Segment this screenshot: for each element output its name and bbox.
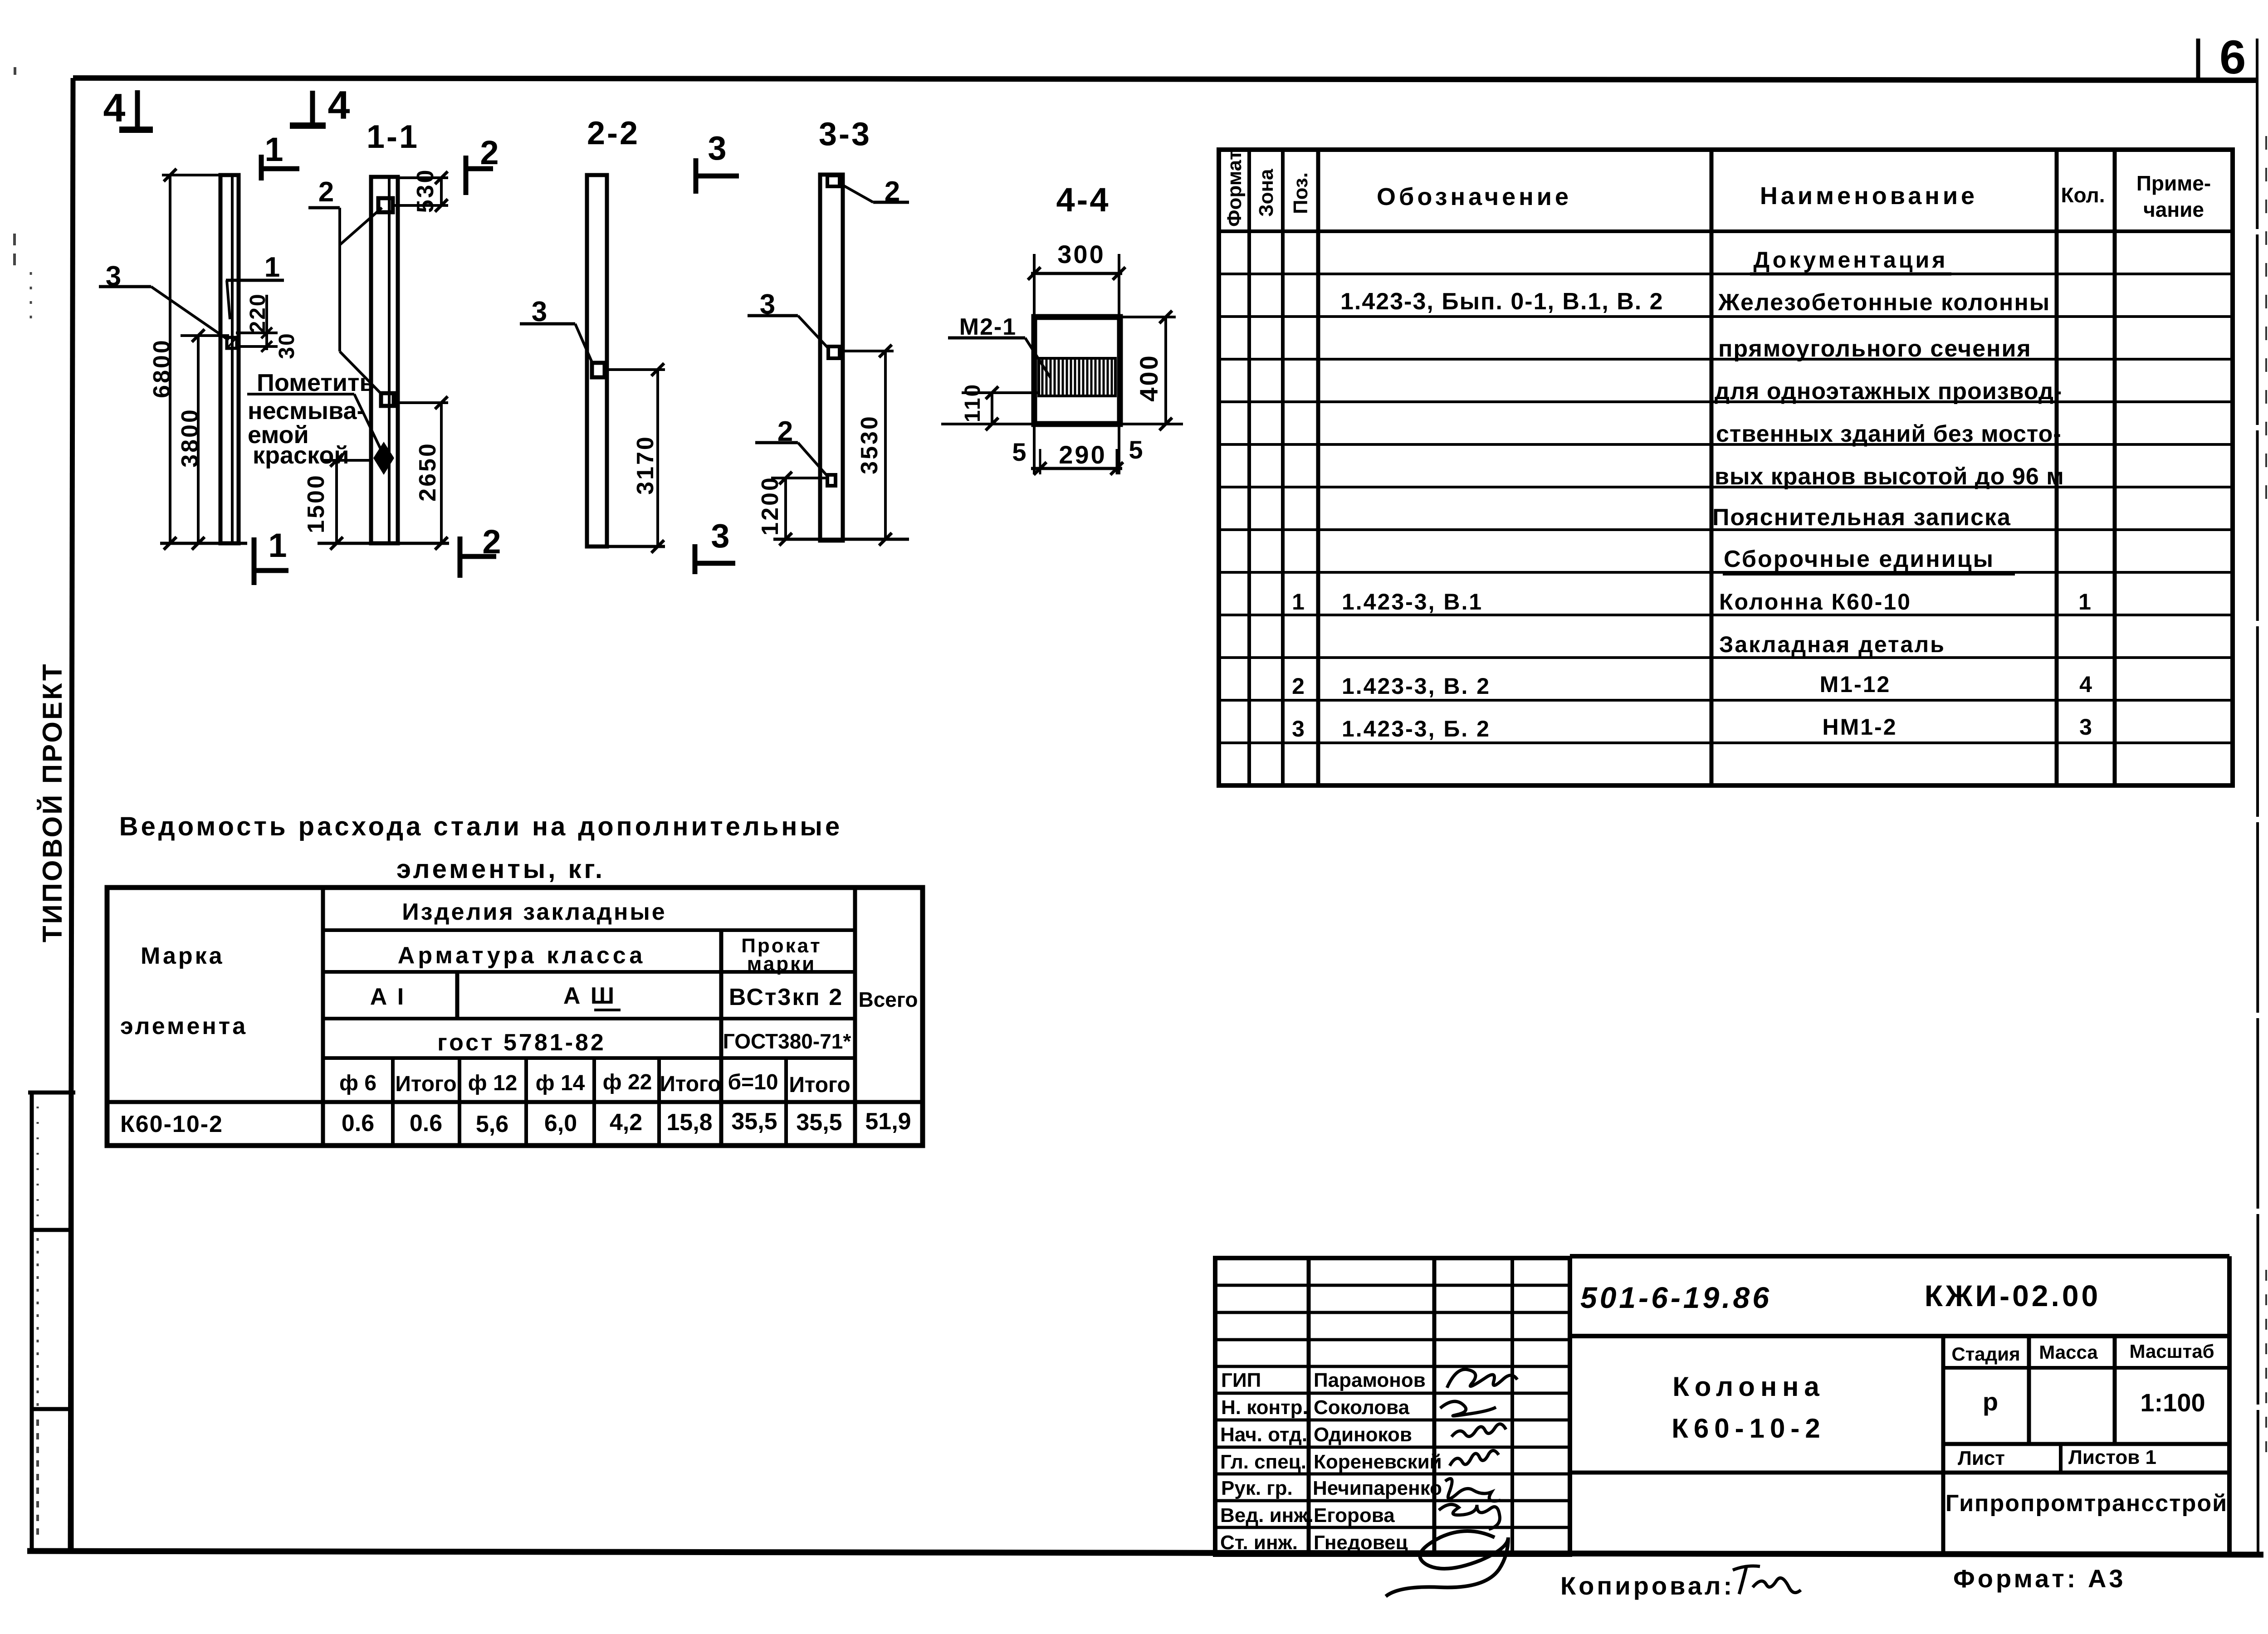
svg-text:К60-10-2: К60-10-2 (120, 1111, 223, 1137)
specification table header: Zona (1255, 169, 1277, 217)
list row (1958, 1446, 2156, 1469)
view 4-4: leader label M2-1 (948, 314, 1051, 378)
svg-text:1: 1 (268, 527, 287, 564)
svg-text:Обозначение: Обозначение (1377, 183, 1572, 210)
svg-text:краской: краской (253, 442, 349, 469)
spec row: M1-12 (1292, 672, 2092, 699)
svg-text:прямоугольного сечения: прямоугольного сечения (1718, 336, 2032, 362)
svg-text:2: 2 (318, 176, 334, 208)
title block text KZHI-02.00 (1925, 1279, 2101, 1312)
title block name: Kolonna K60-10-2 (1672, 1371, 1825, 1444)
svg-text:3530: 3530 (856, 415, 883, 474)
spec row: zakladnaya detal (1719, 632, 1945, 657)
spec row: sborochnye edinitsy heading (1723, 546, 2015, 574)
view 3-3: dimension 1200 (757, 472, 827, 546)
svg-text:ф 14: ф 14 (536, 1071, 585, 1095)
view 4-4: column cross-section box (1034, 317, 1120, 424)
svg-text:Нач. отд.: Нач. отд. (1220, 1424, 1307, 1446)
specification table header: Kol (2061, 183, 2105, 207)
svg-text:Пометить: Пометить (257, 369, 375, 396)
svg-text:элемента: элемента (120, 1013, 248, 1039)
svg-text:Листов 1: Листов 1 (2068, 1446, 2156, 1468)
svg-text:А Ш: А Ш (563, 983, 616, 1009)
view 3-3 title (819, 116, 871, 152)
svg-text:М2-1: М2-1 (959, 314, 1017, 340)
facade: dimension 220 and 30 (236, 293, 299, 359)
svg-text:чание: чание (2143, 198, 2204, 221)
view 4-4 title (1056, 181, 1110, 219)
svg-text:НМ1-2: НМ1-2 (1822, 714, 1897, 740)
svg-text:6,0: 6,0 (544, 1110, 577, 1136)
svg-text:0.6: 0.6 (342, 1110, 374, 1136)
svg-text:б=10: б=10 (728, 1070, 778, 1094)
specification table header: Poz (1290, 172, 1312, 214)
svg-text:Изделия закладные: Изделия закладные (402, 899, 666, 925)
svg-text:Н. контр.: Н. контр. (1221, 1396, 1308, 1419)
svg-text:4,2: 4,2 (610, 1109, 642, 1136)
svg-text:35,5: 35,5 (796, 1109, 842, 1136)
view 1-1: paint note text (248, 369, 375, 469)
sheet number cell tick (2196, 39, 2200, 81)
svg-text:1: 1 (1292, 589, 1305, 615)
view 3-3: embedded plate 2 (bottom) (827, 475, 836, 486)
stage table headers (1951, 1341, 2214, 1365)
organization name (1945, 1490, 2228, 1517)
svg-text:Гнедовец: Гнедовец (1314, 1532, 1408, 1554)
svg-text:КЖИ-02.00: КЖИ-02.00 (1925, 1279, 2101, 1312)
view 3-3: leader label 3 (middle) (748, 289, 829, 349)
svg-text:Сборочные единицы: Сборочные единицы (1724, 546, 1994, 572)
svg-text:Формат: Формат (1223, 150, 1246, 227)
svg-text:51,9: 51,9 (865, 1108, 911, 1135)
svg-text:Кореневский: Кореневский (1314, 1451, 1442, 1473)
view 1-1: dimension 1500 (303, 454, 370, 550)
signature squiggle Ruk gr (1445, 1478, 1501, 1501)
svg-text:Колонна К60-10: Колонна К60-10 (1719, 589, 1911, 615)
signature squiggle Nach otd (1452, 1424, 1506, 1437)
svg-text:вых кранов высотой до 96 м: вых кранов высотой до 96 м (1715, 463, 2064, 490)
svg-text:2650: 2650 (415, 442, 441, 502)
svg-text:530: 530 (412, 168, 439, 213)
svg-text:2: 2 (1292, 673, 1305, 699)
steel table cell: Vsego (858, 988, 918, 1011)
svg-text:1.423-3, В. 2: 1.423-3, В. 2 (1342, 673, 1491, 699)
svg-text:6: 6 (2219, 31, 2246, 84)
view 1-1: section mark 2 (bottom right) (460, 523, 501, 578)
vertical margin text TIPOVOY PROEKT (37, 662, 68, 942)
spec row: Dokumentacia heading (1750, 247, 1951, 274)
svg-text:М1-12: М1-12 (1820, 672, 1891, 697)
svg-text:1: 1 (2078, 589, 2091, 615)
svg-text:1500: 1500 (303, 473, 329, 533)
svg-text:15,8: 15,8 (666, 1109, 712, 1136)
svg-text:1: 1 (264, 131, 283, 168)
signature squiggle Ved inzh (1439, 1504, 1500, 1529)
view 2-2: leader label 3 (520, 296, 593, 364)
svg-text:4: 4 (2079, 672, 2092, 697)
view 4-4: dimension 300 (1028, 240, 1125, 317)
svg-text:3-3: 3-3 (819, 116, 871, 152)
view 4-4: dimension 110 (941, 383, 1040, 430)
svg-text:элементы, кг.: элементы, кг. (396, 854, 605, 884)
spec row: 1.423-3 Byp 0-1 (1340, 288, 1664, 315)
specification table header: Naimenovanie (1760, 182, 1978, 210)
svg-text:Лист: Лист (1958, 1447, 2005, 1469)
view 1-1: section mark 1 (top) (261, 131, 299, 180)
steel table grid (107, 888, 923, 1146)
svg-text:Масса: Масса (2039, 1341, 2098, 1363)
svg-text:Приме-: Приме- (2136, 171, 2211, 195)
facade: leader label 3 (99, 261, 229, 340)
svg-text:Копировал:: Копировал: (1560, 1571, 1735, 1600)
svg-text:Одиноков: Одиноков (1314, 1424, 1412, 1446)
svg-text:3800: 3800 (177, 408, 203, 468)
svg-text:6800: 6800 (149, 338, 175, 398)
specification table header: Format (1223, 150, 1246, 227)
svg-text:Нечипаренко: Нечипаренко (1313, 1477, 1442, 1499)
title block signature names (1313, 1369, 1442, 1554)
view 1-1: paint mark arrow (373, 442, 394, 475)
svg-text:Стадия: Стадия (1951, 1343, 2020, 1365)
svg-text:Наименование: Наименование (1760, 182, 1978, 210)
facade: leader label 1 (226, 252, 284, 319)
svg-text:Итого: Итого (789, 1073, 850, 1097)
svg-text:ф 22: ф 22 (603, 1070, 652, 1094)
view 2-2 title (587, 115, 640, 151)
bottom note: Format A3 (1953, 1564, 2126, 1593)
kopiroval signature (1733, 1566, 1801, 1594)
svg-text:3: 3 (1292, 716, 1305, 741)
view 3-3: column body (820, 175, 843, 541)
svg-text:Колонна: Колонна (1672, 1371, 1825, 1402)
svg-text:1.423-3, Б. 2: 1.423-3, Б. 2 (1342, 716, 1491, 741)
signature squiggle N kontr (1440, 1401, 1496, 1416)
svg-text:Итого: Итого (660, 1072, 721, 1096)
svg-text:Формат: А3: Формат: А3 (1953, 1564, 2126, 1593)
faint microtext right page edge (2265, 136, 2267, 1465)
svg-text:несмыва-: несмыва- (248, 397, 365, 424)
sheet number 6 (2219, 31, 2246, 84)
facade: dimension 3800 (177, 329, 229, 550)
svg-text:300: 300 (1057, 240, 1105, 268)
view 2-2: section mark 3 (bottom) (695, 517, 735, 574)
steel table cell: Marka elementa (120, 943, 248, 1039)
view 1-1: base extension line (318, 542, 449, 545)
svg-text:2-2: 2-2 (587, 115, 640, 151)
svg-text:1200: 1200 (757, 476, 783, 536)
svg-text:35,5: 35,5 (731, 1108, 777, 1135)
svg-text:110: 110 (961, 383, 985, 422)
svg-text:30: 30 (275, 332, 299, 359)
svg-text:гост 5781-82: гост 5781-82 (437, 1029, 606, 1056)
signature squiggle GIP (1447, 1370, 1517, 1388)
svg-text:Гипропромтрансстрой: Гипропромтрансстрой (1945, 1490, 2228, 1517)
spec row: vykh kranov (1715, 463, 2064, 490)
view 3-3: base extension line (773, 538, 909, 541)
svg-text:3: 3 (711, 517, 729, 555)
svg-text:Закладная деталь: Закладная деталь (1719, 632, 1945, 657)
facade view: embedded plate item 3 (227, 337, 237, 348)
svg-text:Всего: Всего (858, 988, 918, 1011)
svg-text:1: 1 (264, 252, 280, 283)
svg-text:Рук. гр.: Рук. гр. (1221, 1477, 1293, 1499)
facade: base extension line (160, 542, 247, 545)
svg-text:ф 6: ф 6 (339, 1071, 376, 1095)
svg-text:4: 4 (103, 85, 126, 130)
svg-text:4-4: 4-4 (1056, 181, 1110, 219)
svg-text:3: 3 (708, 129, 726, 167)
steel table title line 2 (396, 854, 605, 884)
svg-text:Марка: Марка (141, 943, 225, 969)
view 3-3: embedded plate 2 (top) (827, 176, 840, 186)
view 3-3: dimension 3530 (841, 345, 894, 546)
steel table cell: Armatura klassa (398, 942, 645, 969)
view 2-2: embedded plate 3 (592, 363, 605, 377)
view 2-2: column body (587, 175, 607, 546)
svg-text:Ведомость расхода стали на доп: Ведомость расхода стали на дополнительны… (119, 812, 842, 841)
svg-text:Пояснительная записка: Пояснительная записка (1712, 504, 2011, 531)
facade view: column body (220, 175, 239, 543)
svg-text:ственных зданий без мосто-: ственных зданий без мосто- (1716, 421, 2062, 447)
svg-text:1.423-3, В.1: 1.423-3, В.1 (1342, 589, 1483, 615)
svg-text:А I: А I (370, 984, 406, 1010)
view 4-4: embedded plate M2-1 hatched (1039, 358, 1115, 396)
view 1-1 title (367, 119, 419, 155)
steel table data row (120, 1108, 911, 1137)
left margin faint label marks (15, 67, 38, 1542)
svg-text:Парамонов: Парамонов (1314, 1369, 1426, 1391)
view 1-1: section mark 2 (top right) (466, 134, 499, 195)
svg-text:4: 4 (328, 83, 350, 127)
signature squiggle Gl spec (1450, 1450, 1499, 1466)
svg-text:ГИП: ГИП (1221, 1369, 1261, 1391)
spec row: poyasnitelnaya zapiska (1712, 504, 2011, 531)
svg-text:501-6-19.86: 501-6-19.86 (1580, 1281, 1772, 1314)
steel table cell: Prokat marki (741, 935, 821, 975)
specification table grid (1219, 150, 2233, 785)
svg-text:Гл. спец.: Гл. спец. (1220, 1451, 1306, 1473)
svg-text:Масштаб: Масштаб (2129, 1341, 2214, 1362)
svg-text:Соколова: Соколова (1314, 1396, 1410, 1419)
svg-text:ТИПОВОЙ ПРОЕКТ: ТИПОВОЙ ПРОЕКТ (37, 662, 68, 942)
view 1-1: column body (371, 177, 398, 543)
title block signature table grid (1215, 1258, 1570, 1555)
view 4-4: dimension 400 (1120, 311, 1183, 430)
signature squiggle St inzh (large flourish) (1386, 1531, 1508, 1596)
facade view: section cut mark 4 (right) (290, 83, 350, 127)
spec row: stvennykh zdaniy (1716, 421, 2062, 447)
svg-text:К60-10-2: К60-10-2 (1672, 1413, 1825, 1444)
view 2-2: dimension 3170 (607, 363, 665, 553)
stage table values (1983, 1387, 2205, 1417)
svg-text:220: 220 (246, 293, 270, 333)
svg-text:5: 5 (1012, 438, 1026, 466)
steel table cell: VSt3kp2 (729, 984, 843, 1010)
svg-text:Поз.: Поз. (1290, 172, 1312, 214)
svg-text:0.6: 0.6 (410, 1110, 442, 1136)
spec row: kolonna K60-10 (1292, 589, 2091, 615)
svg-text:ГОСТ380-71*: ГОСТ380-71* (723, 1029, 851, 1053)
svg-text:Ст. инж.: Ст. инж. (1220, 1532, 1298, 1554)
bottom note: Kopiroval (1560, 1571, 1735, 1600)
left margin stamp boxes (28, 1093, 75, 1552)
svg-text:Железобетонные колонны: Железобетонные колонны (1718, 289, 2050, 316)
title block text 501-6-19.86 (1580, 1281, 1772, 1314)
facade: dimension 6800 (149, 169, 221, 550)
view 4-4: dimension 290 with 5 offsets (1012, 424, 1143, 475)
title block top band border (1570, 1256, 2229, 1555)
svg-text:Вед. инж.: Вед. инж. (1220, 1504, 1314, 1527)
svg-text:2: 2 (480, 134, 499, 171)
svg-text:ф 12: ф 12 (468, 1071, 518, 1095)
view 2-2: base extension line (585, 545, 665, 548)
specification table header: Primechanie (2136, 171, 2211, 221)
title block stage table grid (1570, 1336, 2229, 1555)
steel table cell: A III (563, 983, 621, 1010)
svg-text:р: р (1983, 1387, 1998, 1416)
svg-text:5,6: 5,6 (476, 1111, 508, 1137)
spec row: dlya odnoetazhnykh (1715, 378, 2062, 405)
view 1-1: embedded plate 2 (top) (378, 198, 393, 212)
svg-text:1:100: 1:100 (2140, 1388, 2205, 1417)
svg-text:Егорова: Егорова (1314, 1504, 1395, 1527)
spec row: Zhelezobetonnye kolonny (1718, 289, 2050, 316)
svg-text:ВСт3кп 2: ВСт3кп 2 (729, 984, 843, 1010)
svg-text:марки: марки (747, 953, 816, 975)
view 1-1: embedded plate 2 (middle) (381, 393, 394, 406)
svg-text:3: 3 (2079, 714, 2092, 740)
steel table cell: Izdeliya zakladnye (402, 899, 666, 925)
view 3-3: leader label 2 (bottom) (755, 416, 828, 477)
view 2-2: section mark 3 (top) (696, 129, 739, 194)
svg-text:Документация: Документация (1754, 247, 1948, 273)
title block signature roles (1220, 1369, 1314, 1554)
svg-text:3170: 3170 (632, 435, 659, 495)
spec row: NM1-2 (1292, 714, 2092, 741)
svg-text:1.423-3, Бып. 0-1, В.1, В. 2: 1.423-3, Бып. 0-1, В.1, В. 2 (1340, 288, 1664, 315)
svg-text:1-1: 1-1 (367, 119, 419, 155)
steel table cell: gost 5781-82 (437, 1029, 606, 1056)
svg-text:Зона: Зона (1255, 169, 1277, 217)
svg-text:5: 5 (1129, 435, 1143, 464)
svg-text:Кол.: Кол. (2061, 183, 2105, 207)
svg-text:290: 290 (1059, 440, 1106, 469)
steel table cell: gost 380-71 (723, 1029, 851, 1053)
view 1-1: leader label 2 (308, 176, 383, 395)
steel table diameter row (339, 1070, 850, 1097)
view 1-1: dimension 530 (393, 168, 448, 213)
view 1-1: paint note leader (247, 394, 382, 453)
svg-text:Арматура класса: Арматура класса (398, 942, 645, 969)
spec row: pryamougolnogo secheniya (1718, 336, 2032, 362)
steel table title line 1 (119, 812, 842, 841)
view 1-1: dimension 2650 (394, 396, 448, 550)
view 3-3: embedded plate 3 (middle) (828, 346, 840, 358)
view 3-3: leader label 2 (top) (841, 176, 909, 207)
svg-text:для одноэтажных производ-: для одноэтажных производ- (1715, 378, 2062, 405)
specification table header: Oboznachenie (1377, 183, 1572, 210)
svg-text:400: 400 (1134, 354, 1163, 401)
section mark 1 (bottom, facade/1-1) (254, 527, 288, 585)
facade view: section cut mark 4 (left) (103, 85, 153, 130)
svg-text:Итого: Итого (395, 1072, 456, 1096)
steel table cell: A I (370, 984, 406, 1010)
